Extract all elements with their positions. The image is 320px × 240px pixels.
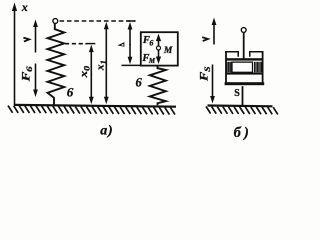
svg-text:F6: F6 [20,65,34,82]
damper cylinder top lips [225,52,263,57]
spring G (right, loaded under mass) [150,66,166,105]
svg-text:6: 6 [67,85,74,100]
damper bottom stem [242,86,244,106]
caption a) [100,124,113,139]
ground line (left diagram) [14,105,176,107]
label S [234,88,240,99]
piston top plate [226,58,263,60]
svg-text:S: S [234,88,240,99]
piston body [232,62,253,72]
svg-text:x1: x1 [96,60,108,71]
label F_s (rotated) [199,66,213,82]
x-axis label x [21,0,28,14]
force double arrow inside block [156,34,161,64]
label G of loaded spring [136,75,143,89]
svg-text:6: 6 [136,75,143,89]
velocity arrow v (left) [33,20,38,53]
mass block M [141,32,178,65]
weight force arrow F_G (left) [33,64,38,98]
svg-text:x: x [21,0,28,14]
label Delta (rotated) [117,42,124,47]
label M inside block [163,46,173,56]
ground hatching (right diagram) [206,106,278,114]
svg-text:а): а) [100,124,113,139]
cylinder bottom band [225,82,265,85]
fluid hatching left of piston [227,62,231,72]
x-axis arrow [12,3,17,106]
dimension x0 [87,44,95,105]
velocity arrow v (right) [212,18,217,45]
label v (right, rotated) [202,37,208,41]
svg-text:M: M [163,46,173,56]
label x0 (rotated) [79,66,91,79]
damping force arrow F_s [210,65,215,104]
mid dashed reference line (x0 level) [65,43,87,45]
label F_G inside block [142,35,154,47]
label v (left, rotated) [23,38,29,42]
label x1 (rotated) [96,60,108,71]
ground line (right diagram) [208,104,273,107]
svg-text:б): б) [234,125,252,141]
dimension Delta [122,21,141,65]
svg-text:FS: FS [199,66,213,82]
svg-text:F6: F6 [142,35,154,47]
svg-text:FM: FM [141,53,155,65]
caption b) [234,125,252,141]
fluid hatching right of piston [255,62,262,72]
label F_M inside block [141,53,155,65]
ground hatching (left diagram) [8,106,175,115]
spring G (left, unloaded) [48,19,65,106]
dimension x1 [104,22,109,105]
damper cylinder walls [226,51,263,85]
svg-text:x0: x0 [79,66,91,79]
label G of left spring [67,85,74,100]
piston bottom plate [226,72,263,74]
top dashed reference line (unloaded spring top) [60,20,136,22]
damper piston rod [243,33,245,59]
label F_G (rotated) [20,65,34,82]
damper rod top circle [241,28,246,33]
